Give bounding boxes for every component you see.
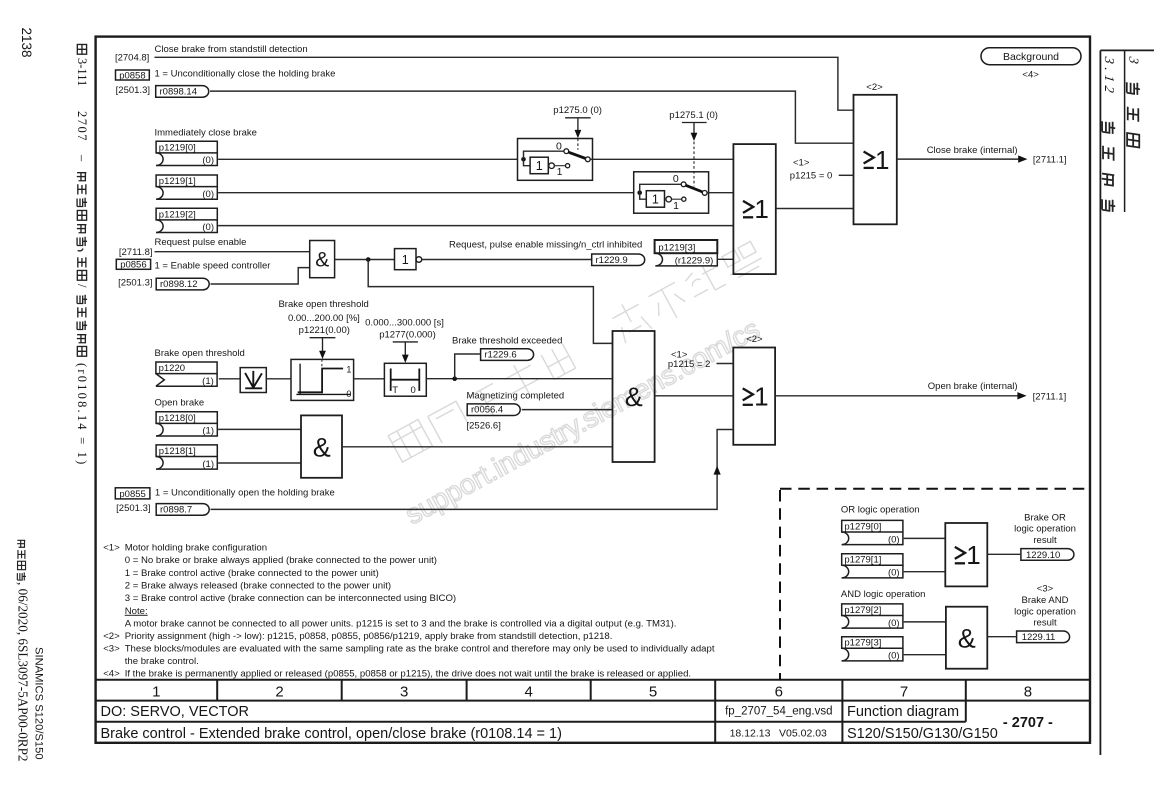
svg-text:V05.02.03: V05.02.03 (779, 728, 827, 740)
connector p1219[3] (655, 240, 718, 267)
watermark line 2: support.industry.siemens.com/cs (400, 313, 765, 530)
hysteresis block U6 (291, 359, 354, 400)
svg-text:&: & (625, 382, 643, 412)
svg-text:0: 0 (411, 385, 416, 396)
parameter box p0858 (116, 70, 150, 81)
p1221 T-bar and arrow (310, 337, 336, 339)
svg-text:p1220: p1220 (159, 363, 185, 374)
wire p1279[3] to AND gate U12 (904, 654, 946, 656)
table grid (96, 680, 1090, 743)
svg-text:&: & (315, 249, 329, 272)
bottom left margin text 参数手册 06/2020 (16, 540, 31, 761)
connector r1229.6 (481, 349, 534, 361)
svg-text:1229.11: 1229.11 (1022, 632, 1056, 643)
svg-text:Request pulse enable: Request pulse enable (155, 237, 247, 248)
wire U9 output to AND gate U7 input 4 (342, 446, 613, 448)
switch S2 box (634, 172, 709, 213)
svg-text:p1279[3]: p1279[3] (844, 638, 881, 649)
svg-text:1 = Enable speed controller: 1 = Enable speed controller (155, 261, 271, 272)
junction dot A (366, 257, 371, 262)
connector r0898.7 (156, 504, 209, 516)
svg-text:(0): (0) (888, 568, 900, 579)
background button (981, 48, 1081, 65)
svg-text:result: result (1033, 535, 1057, 546)
timer block U8 (384, 363, 426, 396)
svg-text:(0): (0) (888, 651, 900, 662)
svg-text:Priority assignment (high -> l: Priority assignment (high -> low): p1215… (125, 631, 613, 642)
p1275.0 T-bar and arrow (565, 117, 591, 119)
svg-text:1: 1 (673, 200, 679, 212)
svg-text:p1219[3]: p1219[3] (658, 242, 695, 253)
common contact S1 (585, 157, 590, 162)
OR gate U11 (945, 523, 987, 586)
connector p1279[1] (842, 554, 903, 579)
svg-text:r0898.7: r0898.7 (160, 505, 192, 516)
wire U3 output to junction (335, 259, 395, 261)
wire U12 to 1229.11 (987, 636, 1016, 638)
svg-text:Background: Background (1003, 51, 1059, 63)
svg-text:Brake OR: Brake OR (1024, 513, 1066, 524)
svg-text:p1215 = 0: p1215 = 0 (790, 170, 833, 181)
svg-text:Open brake: Open brake (155, 398, 205, 409)
svg-text:r1229.6: r1229.6 (484, 350, 516, 361)
svg-text:r0056.4: r0056.4 (471, 405, 503, 416)
svg-text:p1277(0.000): p1277(0.000) (379, 329, 436, 340)
svg-text:1: 1 (346, 365, 351, 375)
dashed selector line S2 (693, 142, 695, 187)
right margin text 3.12 制动控制 (1102, 55, 1117, 213)
svg-text:(r1229.9): (r1229.9) (675, 256, 714, 267)
svg-text:(0): (0) (202, 222, 214, 233)
p1277 T-bar and arrow (393, 341, 418, 343)
connector p1218[1] (156, 445, 217, 470)
svg-text:18.12.13: 18.12.13 (730, 728, 771, 740)
svg-text:p1279[2]: p1279[2] (844, 605, 881, 616)
svg-text:Close brake from standstill de: Close brake from standstill detection (155, 44, 308, 55)
svg-text:Brake open threshold: Brake open threshold (278, 299, 368, 310)
wire p1219[0] to switch S1 (218, 158, 517, 160)
svg-text:[2704.8]: [2704.8] (115, 53, 149, 64)
svg-text:S120/S150/G130/G150: S120/S150/G130/G150 (847, 726, 998, 742)
wire p1218[1] to AND gate U9 input 2 (218, 462, 301, 464)
svg-text:0.000...300.000 [s]: 0.000...300.000 [s] (365, 317, 444, 328)
svg-text:2: 2 (275, 684, 283, 701)
svg-text:<4>: <4> (1022, 69, 1039, 80)
svg-text:1: 1 (875, 145, 889, 175)
wire min block to hysteresis (266, 378, 291, 380)
dashed selector line S1 (577, 139, 579, 150)
svg-text:(0): (0) (888, 618, 900, 629)
connector 1229.10 (1021, 549, 1074, 561)
parameter box p0855 (115, 488, 150, 500)
junction dot S2 (637, 190, 642, 195)
svg-text:–: – (75, 154, 89, 162)
svg-text:1: 1 (402, 253, 409, 267)
svg-text:Open brake (internal): Open brake (internal) (928, 381, 1018, 392)
svg-text:1: 1 (754, 194, 768, 224)
svg-text:3: 3 (400, 684, 408, 701)
wire p1218[0] to AND gate U9 input 1 (218, 428, 301, 430)
wire U2 output to [2711.1] (897, 158, 1020, 160)
AND gate U12 (946, 607, 987, 669)
svg-text:<3>: <3> (1037, 584, 1054, 595)
svg-text:p1275.0 (0): p1275.0 (0) (553, 105, 602, 116)
svg-text:[2526.6]: [2526.6] (467, 421, 501, 432)
svg-text:1: 1 (966, 540, 980, 570)
svg-text:p0855: p0855 (119, 489, 145, 500)
wire p1279[2] to AND gate U12 (904, 621, 946, 623)
svg-text:Immediately close brake: Immediately close brake (155, 128, 257, 139)
svg-text:[2711.1]: [2711.1] (1033, 155, 1067, 166)
left margin page number 2138 (19, 28, 34, 58)
svg-text:Close brake (internal): Close brake (internal) (927, 145, 1018, 156)
svg-text:0: 0 (346, 389, 351, 399)
svg-text:1 = Brake control active (brak: 1 = Brake control active (brake connecte… (125, 568, 379, 579)
svg-text:1 = Unconditionally open the h: 1 = Unconditionally open the holding bra… (155, 487, 335, 498)
column numbers (152, 684, 1032, 701)
wire switch S2 to OR gate U1 input 2 (709, 192, 734, 194)
wire hysteresis to timer (354, 378, 385, 380)
wire r0898.12 to AND gate U3 input 2 (211, 268, 310, 284)
NOT gate box in S1 (530, 157, 548, 174)
wire dot to NOT gate (640, 193, 647, 200)
wire U10 output to [2711.1] (775, 395, 1019, 397)
svg-text:1: 1 (536, 159, 543, 173)
wire U4 to r1229.9 (422, 259, 591, 261)
svg-text:p1219[1]: p1219[1] (159, 176, 196, 187)
wire p1220 to min block (219, 378, 240, 380)
svg-text:1: 1 (557, 166, 563, 178)
svg-text:These blocks/modules are evalu: These blocks/modules are evaluated with … (125, 644, 715, 655)
switch lever S2 (686, 185, 703, 192)
connector r0898.12 (156, 278, 209, 290)
svg-text:2707: 2707 (75, 111, 89, 142)
svg-text:p1279[0]: p1279[0] (844, 521, 881, 532)
svg-text:<1>: <1> (103, 543, 120, 554)
svg-text:p0856: p0856 (120, 260, 146, 271)
connector p1219[2] (156, 208, 217, 233)
svg-text:(1): (1) (202, 376, 214, 387)
svg-text:p1221(0.00): p1221(0.00) (299, 325, 350, 336)
svg-text:result: result (1033, 618, 1057, 629)
connector p1279[2] (842, 604, 903, 629)
wire U11 to 1229.10 (987, 553, 1020, 555)
svg-text:T: T (392, 385, 398, 396)
wire p1219[1] to switch S2 (218, 192, 634, 194)
svg-text:1: 1 (754, 382, 768, 412)
svg-text:[2501.3]: [2501.3] (116, 85, 150, 96)
svg-text:p0858: p0858 (119, 70, 145, 81)
svg-text:(0): (0) (888, 534, 900, 545)
connector p1279[0] (842, 520, 903, 545)
0-contact circle (564, 149, 569, 154)
svg-text:(1): (1) (202, 426, 214, 437)
svg-text:<3>: <3> (103, 644, 120, 655)
common contact S2 (702, 191, 707, 196)
wire timer to AND gate U7 input 2 (426, 378, 612, 380)
wire r0898.7 up to OR gate U10 bottom input (211, 430, 734, 510)
svg-text:&: & (313, 432, 331, 462)
connector p1220 (156, 362, 217, 387)
NOT output bubble (549, 163, 555, 169)
svg-text:Motor holding brake configurat: Motor holding brake configuration (125, 543, 267, 554)
switch S1 box (518, 139, 593, 181)
AND gate U3 (310, 241, 335, 278)
svg-text:[2501.3]: [2501.3] (118, 277, 152, 288)
svg-text:2 = Brake always released (bra: 2 = Brake always released (brake connect… (125, 581, 391, 592)
svg-text:1: 1 (652, 193, 659, 207)
svg-text:3.12: 3.12 (1102, 55, 1117, 98)
svg-text:<1>: <1> (793, 157, 810, 168)
svg-text:<2>: <2> (866, 82, 883, 93)
svg-text:6: 6 (775, 684, 783, 701)
wire dot to 0-contact (640, 184, 681, 192)
svg-text:3 = Brake control active (brak: 3 = Brake control active (brake connecti… (125, 593, 456, 604)
svg-text:AND logic operation: AND logic operation (841, 589, 926, 600)
wire p1279[0] to OR gate U11 (904, 537, 946, 539)
svg-text:Note:: Note: (125, 606, 148, 617)
1-contact circle (682, 197, 686, 201)
junction dot S1 (521, 157, 526, 162)
connector r0056.4 (467, 404, 520, 416)
connector 1229.11 (1017, 631, 1070, 643)
svg-text:3-111: 3-111 (75, 58, 89, 86)
svg-text:0 = No brake or brake always a: 0 = No brake or brake always applied (br… (125, 555, 437, 566)
svg-text:Function diagram: Function diagram (847, 704, 959, 720)
svg-text:(0): (0) (202, 189, 214, 200)
wire [2711.8] to AND gate U3 input 1 (155, 251, 310, 253)
NOT gate U4 (395, 249, 422, 270)
svg-text:(1): (1) (202, 459, 214, 470)
svg-text:Brake control - Extended brake: Brake control - Extended brake control, … (101, 726, 562, 742)
connector p1218[0] (156, 412, 217, 437)
svg-text:0.00...200.00 [%]: 0.00...200.00 [%] (288, 313, 360, 324)
svg-text:<2>: <2> (103, 631, 120, 642)
svg-text:(0): (0) (202, 155, 214, 166)
wire dot to 0-contact (524, 151, 564, 159)
svg-text:[2711.1]: [2711.1] (1033, 391, 1067, 402)
svg-text:p1219[2]: p1219[2] (159, 209, 196, 220)
switch lever S1 (569, 152, 586, 158)
svg-text:&: & (958, 624, 976, 654)
svg-text:- 2707 -: - 2707 - (1003, 715, 1053, 731)
minimum block U5 (240, 368, 266, 393)
left margin caption: 图 3-111 2707 - 扩展制动控制，断开 / 闭合制动器 (r0108.14 = 1) (75, 44, 89, 466)
svg-text:logic operation: logic operation (1014, 606, 1076, 617)
connector r0898.14 (156, 86, 209, 98)
svg-text:r0898.12: r0898.12 (160, 279, 198, 290)
wire junction B up to r1229.6 (455, 354, 480, 379)
svg-text:the brake control.: the brake control. (125, 656, 199, 667)
svg-text:1 = Unconditionally close the: 1 = Unconditionally close the holding br… (155, 68, 336, 79)
AND gate U9 (301, 415, 342, 477)
wire bubble to 1-contact (554, 165, 565, 167)
wire r0056.4 to AND gate U7 input 3 (522, 409, 613, 411)
svg-text:5: 5 (649, 684, 657, 701)
svg-text:p1279[1]: p1279[1] (844, 555, 881, 566)
svg-text:r1229.9: r1229.9 (596, 255, 628, 266)
parameter box p0856 (116, 259, 150, 270)
wire from [2704.8] to OR gate U2 input 1 (155, 57, 854, 110)
connector p1219[1] (156, 175, 217, 200)
NOT gate box in S2 (646, 191, 664, 208)
svg-text:Request, pulse enable missing/: Request, pulse enable missing/n_ctrl inh… (449, 239, 642, 250)
svg-text:3: 3 (1127, 55, 1142, 65)
svg-text:p1275.1 (0): p1275.1 (0) (669, 110, 718, 121)
svg-text:p1218[0]: p1218[0] (159, 413, 196, 424)
wire from r0898.14 to OR gate U2 input 2 (210, 91, 854, 143)
svg-text:DO: SERVO, VECTOR: DO: SERVO, VECTOR (101, 704, 250, 720)
svg-text:fp_2707_54_eng.vsd: fp_2707_54_eng.vsd (725, 706, 832, 718)
wire U1 output to U2 input 4 (776, 208, 854, 210)
svg-text:[2501.3]: [2501.3] (116, 503, 150, 514)
wire p1219[2] to OR gate U1 input 3 (218, 225, 733, 227)
svg-text:p1218[1]: p1218[1] (159, 446, 196, 457)
wire dot to NOT gate (524, 159, 531, 165)
svg-text:[2711.8]: [2711.8] (119, 247, 153, 258)
svg-text:OR logic operation: OR logic operation (841, 505, 920, 516)
0-contact circle (681, 182, 686, 187)
svg-text:2138: 2138 (19, 28, 34, 58)
wire switch S1 to OR gate U1 input 1 (593, 158, 734, 160)
svg-text:(r0108.14 = 1): (r0108.14 = 1) (75, 363, 89, 466)
right margin text 3 功能图 (1127, 55, 1142, 148)
svg-text:r0898.14: r0898.14 (160, 87, 198, 98)
wire junction A down to AND gate U7 input 1 (368, 260, 612, 344)
svg-text:p1215 = 2: p1215 = 2 (668, 359, 711, 370)
svg-text:0: 0 (673, 173, 679, 185)
connector r1229.9 (592, 254, 645, 266)
1-contact circle (566, 164, 570, 168)
svg-text:logic operation: logic operation (1014, 524, 1076, 535)
svg-text:Brake AND: Brake AND (1022, 595, 1069, 606)
page frame (96, 37, 1090, 743)
svg-text:<2>: <2> (746, 334, 763, 345)
connector p1219[0] (156, 141, 217, 166)
wire bubble to 1-contact (672, 198, 682, 200)
svg-text:4: 4 (525, 684, 533, 701)
wire U7 output to OR gate U10 (655, 395, 734, 397)
p1275.1 T-bar and arrow (682, 122, 707, 124)
watermark line 1: 西门子工业 技术论坛 (386, 235, 767, 465)
wire p1279[1] to OR gate U11 (904, 571, 946, 573)
svg-text:p1219[0]: p1219[0] (159, 142, 196, 153)
svg-text:1: 1 (152, 684, 160, 701)
svg-text:If the brake is permanently ap: If the brake is permanently applied or r… (125, 669, 691, 680)
svg-text:Brake threshold exceeded: Brake threshold exceeded (452, 336, 562, 347)
wire p1219[3] to OR gate U1 input 4 (717, 258, 733, 260)
svg-text:A motor brake cannot be connec: A motor brake cannot be connected to all… (125, 618, 677, 629)
svg-text:<4>: <4> (103, 669, 120, 680)
svg-text:Magnetizing completed: Magnetizing completed (467, 391, 565, 402)
svg-text:, 06/2020, 6SL3097-5AP00-0RP2: , 06/2020, 6SL3097-5AP00-0RP2 (16, 582, 31, 762)
svg-text:0: 0 (556, 140, 562, 152)
right margin header rules (1100, 49, 1154, 51)
bottom left margin text SINAMICS S120/S150 (33, 647, 45, 760)
svg-text:7: 7 (900, 684, 908, 701)
svg-text:/: / (75, 284, 89, 288)
svg-text:1229.10: 1229.10 (1026, 550, 1060, 561)
flow arrowhead on vertical wire (714, 466, 721, 475)
NOT output bubble (666, 196, 672, 202)
connector p1279[3] (842, 637, 903, 662)
svg-text:8: 8 (1024, 684, 1032, 701)
junction dot B (452, 376, 457, 381)
svg-text:Brake open threshold: Brake open threshold (155, 348, 245, 359)
svg-text:SINAMICS S120/S150: SINAMICS S120/S150 (33, 647, 45, 760)
